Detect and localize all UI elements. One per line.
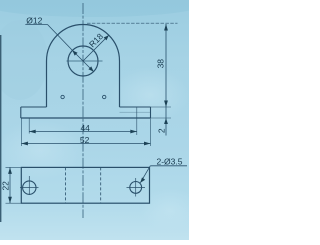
hole left small in front view xyxy=(61,95,64,98)
leader for Ø12: underline + 45° line to circle xyxy=(25,24,47,26)
wire: main vertical centerline xyxy=(82,3,84,218)
svg-text:22: 22 xyxy=(1,181,11,191)
arrow R18 at arc (pointing up-right) xyxy=(104,35,109,40)
44 extension line left xyxy=(28,119,30,134)
base bottom extension to dimension xyxy=(151,117,172,119)
52 dimension line xyxy=(21,143,150,145)
2 dimension line xyxy=(165,107,167,136)
arrow 44 left xyxy=(29,130,36,134)
arrow 52 right xyxy=(144,142,151,146)
hole right small in front view xyxy=(103,95,106,98)
52 extension line right xyxy=(150,119,152,147)
22 extension bottom xyxy=(6,202,21,204)
svg-text:2-Ø3.5: 2-Ø3.5 xyxy=(157,157,183,167)
circle Ø12 xyxy=(68,46,98,76)
bottom view rectangle xyxy=(21,167,149,203)
right hole crosshair xyxy=(127,186,146,188)
base top extension line to dimension xyxy=(151,106,172,108)
arrow 38 top (up) xyxy=(164,24,168,31)
22 extension top xyxy=(6,166,21,168)
faint inner base line xyxy=(120,111,151,113)
38 extension line at arc top xyxy=(87,22,178,24)
background wash xyxy=(0,0,189,240)
base left edge xyxy=(20,107,22,118)
base top right step xyxy=(120,106,151,108)
circle horizontal centerline xyxy=(67,60,103,62)
svg-text:44: 44 xyxy=(80,123,90,133)
44 dimension line xyxy=(29,131,137,133)
svg-text:2: 2 xyxy=(156,128,166,133)
arrow 38 bottom (down) xyxy=(164,101,168,108)
bottom view right hole xyxy=(130,182,142,194)
arrow 22 top (up) xyxy=(8,167,12,174)
front view body outline: arch R36.5 with side walls xyxy=(47,25,120,107)
left hole crosshair xyxy=(20,187,39,189)
arrow 2 bottom (up, below base bottom line) xyxy=(164,118,168,124)
dimension texts xyxy=(1,15,183,190)
44 extension line right xyxy=(136,108,138,136)
hidden dashed line left xyxy=(65,167,67,203)
svg-text:Ø12: Ø12 xyxy=(26,15,42,25)
52 extension line left xyxy=(20,119,22,147)
arrowheads xyxy=(8,24,168,203)
svg-text:38: 38 xyxy=(156,59,166,69)
arrow 52 left xyxy=(21,142,28,146)
38 dimension line xyxy=(165,24,167,107)
arrow Ø12 lower-right (pointing down-right) xyxy=(88,66,93,71)
leader for 2-Ø3.5 xyxy=(150,165,187,167)
hidden dashed line right xyxy=(100,167,102,203)
base top left step xyxy=(21,106,47,108)
diameter dimension line inside circle xyxy=(72,50,93,71)
arrow 44 right xyxy=(130,130,137,134)
arrow 22 bottom (down) xyxy=(8,197,12,204)
base bottom xyxy=(21,117,151,119)
scan edge dark line on left xyxy=(0,35,1,222)
bottom view left hole xyxy=(23,181,36,194)
base right edge xyxy=(150,107,152,118)
22 dimension line xyxy=(9,167,11,203)
R18 dimension line from center to arc xyxy=(83,35,109,61)
svg-text:52: 52 xyxy=(80,135,90,145)
arrow leader 2-Ø3.5 (pointing down-left at hole) xyxy=(140,177,145,182)
arrow Ø12 upper-left (pointing up-left) xyxy=(72,50,77,55)
